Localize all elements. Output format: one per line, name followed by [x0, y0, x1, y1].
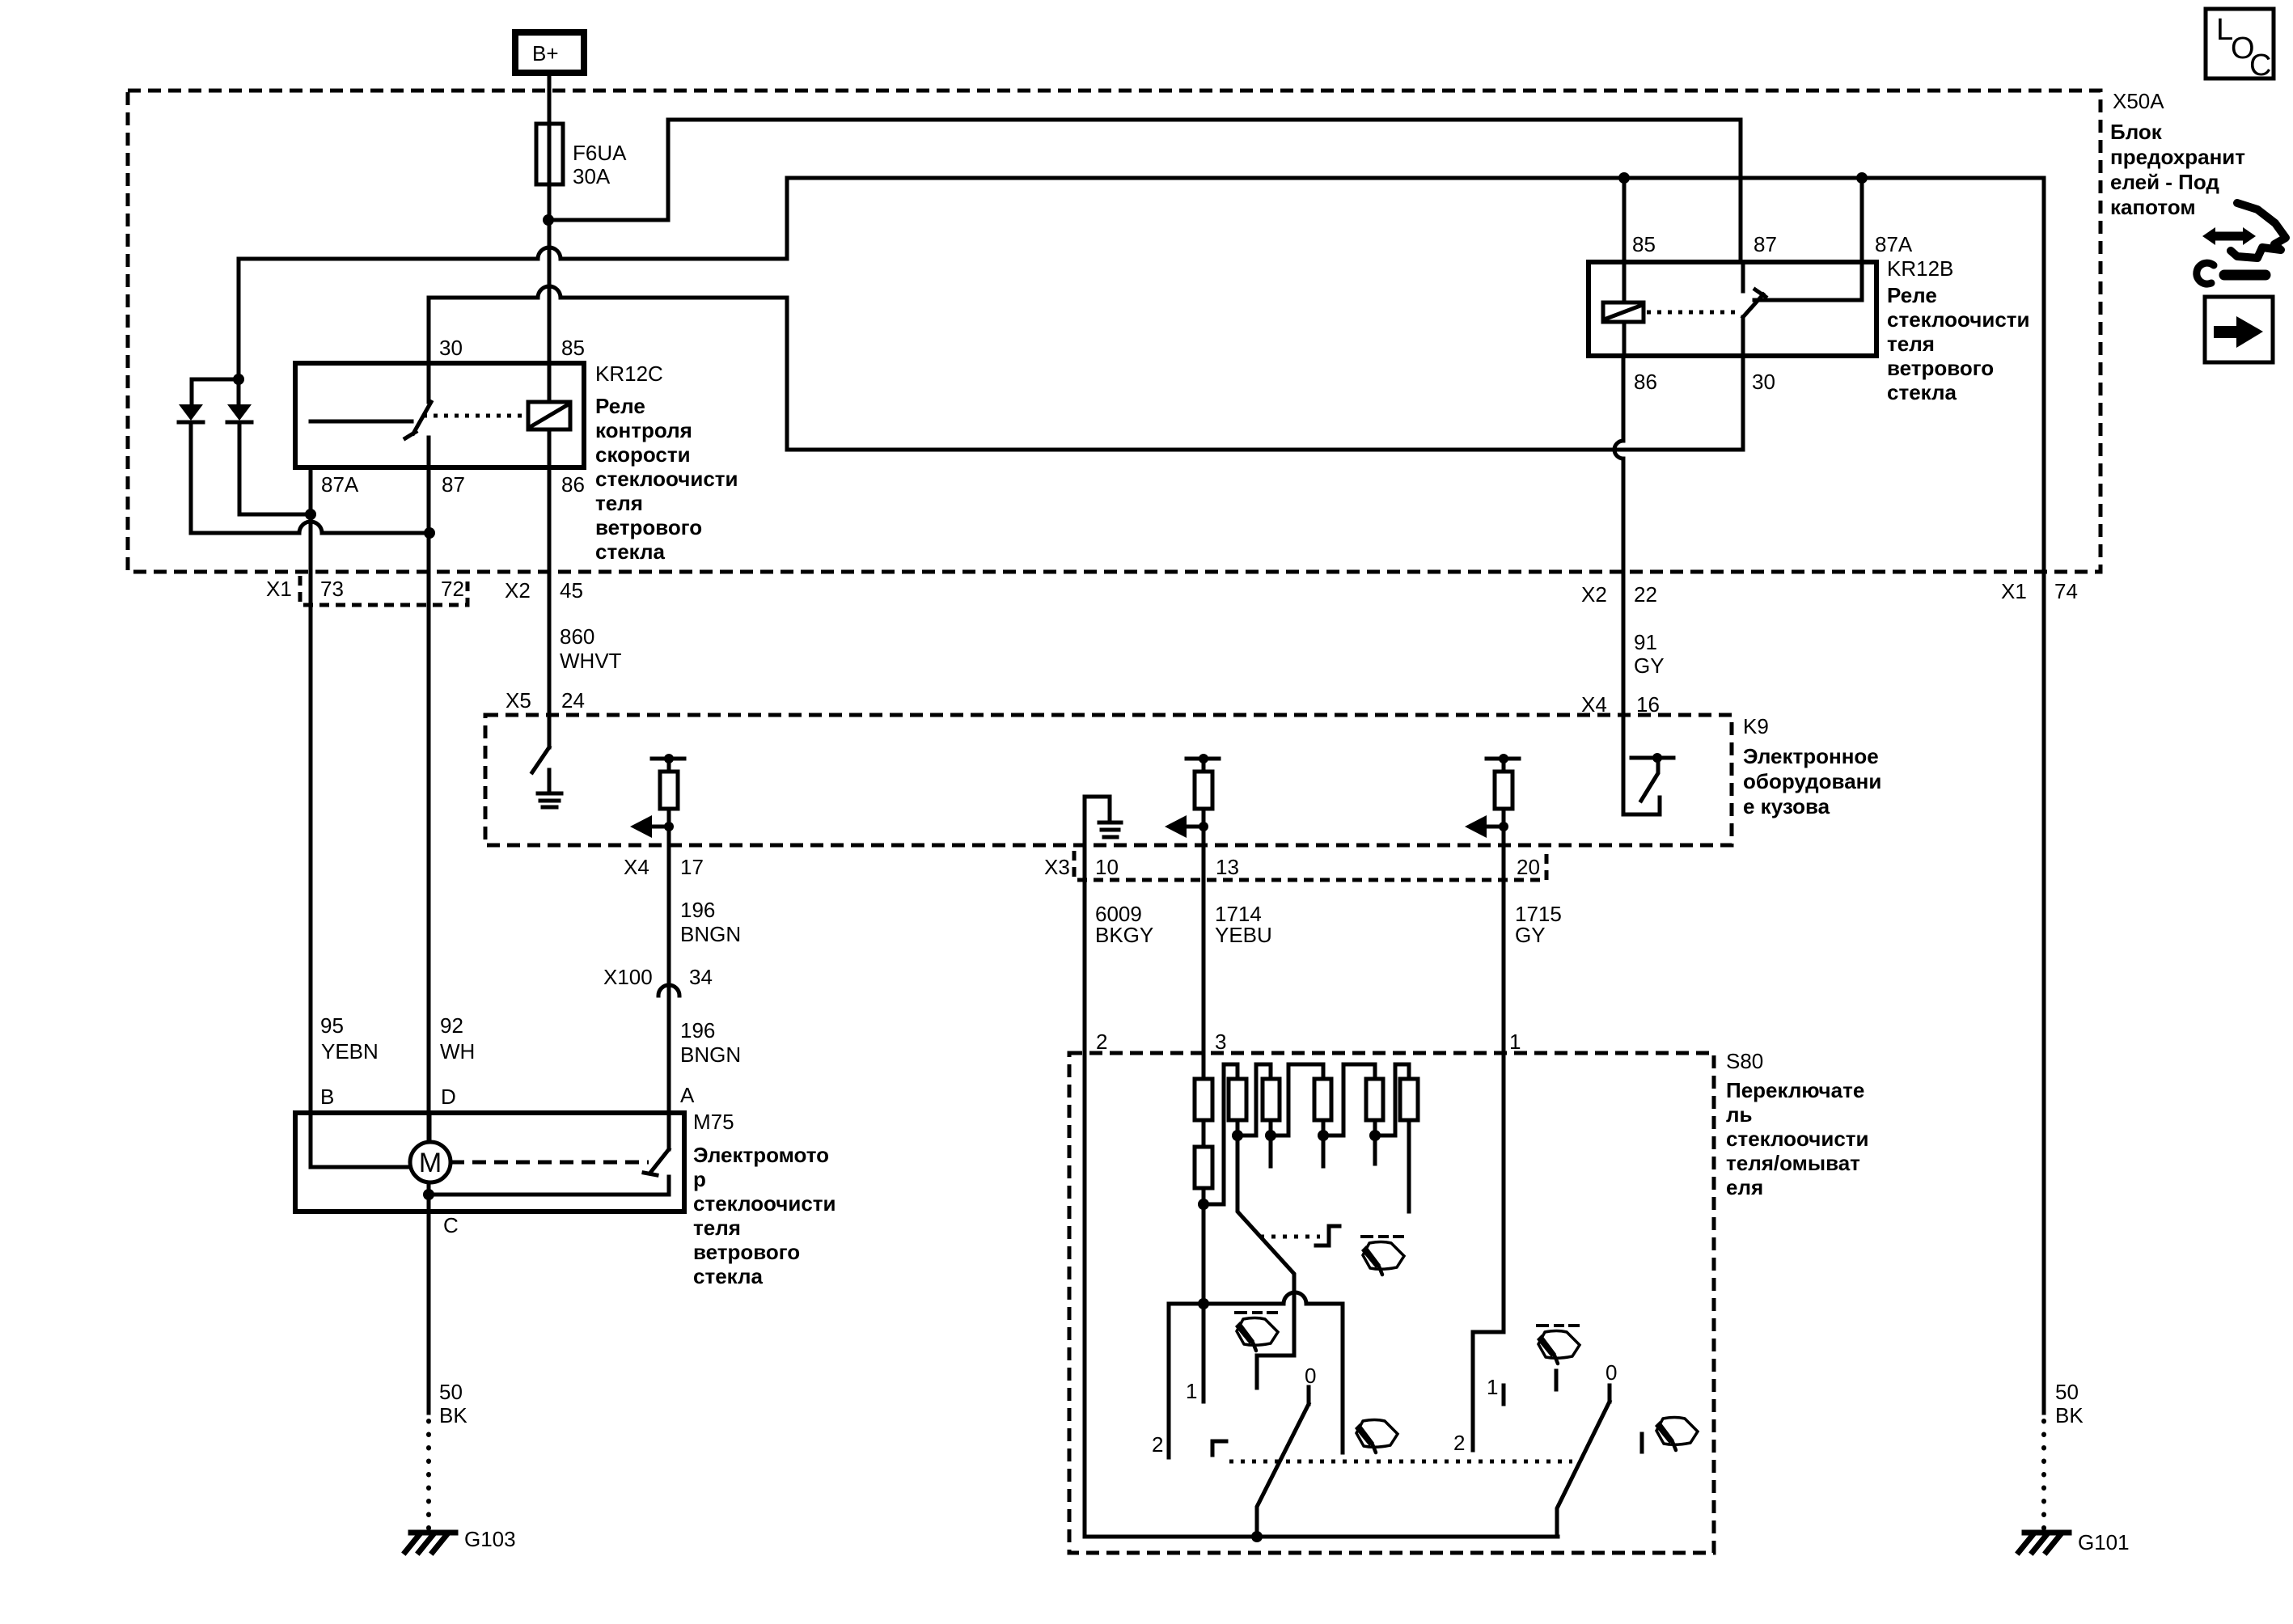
- svg-text:BNGN: BNGN: [680, 922, 741, 946]
- svg-text:X4: X4: [624, 855, 649, 879]
- svg-text:X2: X2: [505, 578, 531, 603]
- svg-text:30: 30: [439, 336, 463, 360]
- svg-text:стеклоочисти: стеклоочисти: [1887, 307, 2030, 332]
- svg-text:196: 196: [680, 1018, 715, 1042]
- svg-text:C: C: [443, 1213, 459, 1237]
- svg-text:оборудовани: оборудовани: [1743, 769, 1881, 793]
- svg-text:контроля: контроля: [595, 418, 692, 442]
- svg-text:стеклоочисти: стеклоочисти: [1726, 1127, 1869, 1151]
- svg-text:196: 196: [680, 898, 715, 922]
- svg-text:87A: 87A: [321, 472, 359, 497]
- svg-text:скорости: скорости: [595, 442, 691, 467]
- svg-text:0: 0: [1305, 1364, 1316, 1388]
- svg-text:F6UA: F6UA: [573, 141, 627, 165]
- svg-text:ль: ль: [1726, 1102, 1753, 1127]
- svg-text:86: 86: [1634, 370, 1657, 394]
- svg-text:M: M: [419, 1148, 442, 1178]
- svg-text:B+: B+: [532, 41, 559, 66]
- svg-text:91: 91: [1634, 630, 1657, 654]
- svg-text:2: 2: [1096, 1030, 1107, 1054]
- svg-text:X3: X3: [1044, 855, 1070, 879]
- svg-text:Реле: Реле: [595, 394, 645, 418]
- svg-text:Электромото: Электромото: [693, 1143, 829, 1167]
- svg-text:50: 50: [2055, 1380, 2079, 1404]
- svg-text:X2: X2: [1581, 582, 1607, 607]
- svg-text:предохранит: предохранит: [2110, 145, 2245, 169]
- svg-text:17: 17: [680, 855, 704, 879]
- svg-text:C: C: [2249, 49, 2271, 82]
- svg-text:50: 50: [439, 1380, 463, 1404]
- svg-text:X1: X1: [266, 577, 292, 601]
- svg-text:еля: еля: [1726, 1175, 1763, 1199]
- svg-text:30: 30: [1752, 370, 1775, 394]
- svg-text:теля/омыват: теля/омыват: [1726, 1151, 1860, 1175]
- svg-text:стекла: стекла: [693, 1264, 764, 1288]
- svg-text:1: 1: [1509, 1030, 1521, 1054]
- svg-text:стеклоочисти: стеклоочисти: [595, 467, 738, 491]
- svg-text:WHVT: WHVT: [560, 649, 622, 673]
- svg-text:BK: BK: [439, 1403, 467, 1427]
- svg-text:85: 85: [561, 336, 585, 360]
- svg-text:стекла: стекла: [1887, 380, 1957, 404]
- svg-text:GY: GY: [1515, 923, 1546, 947]
- svg-text:X4: X4: [1581, 692, 1607, 717]
- svg-text:2: 2: [1453, 1431, 1465, 1455]
- svg-text:A: A: [680, 1083, 695, 1107]
- svg-text:капотом: капотом: [2110, 195, 2196, 219]
- svg-text:30A: 30A: [573, 164, 611, 188]
- svg-text:X1: X1: [2001, 579, 2027, 603]
- svg-text:3: 3: [1215, 1030, 1226, 1054]
- svg-text:BNGN: BNGN: [680, 1042, 741, 1067]
- svg-text:стеклоочисти: стеклоочисти: [693, 1191, 836, 1216]
- svg-text:20: 20: [1517, 855, 1540, 879]
- svg-text:B: B: [320, 1085, 334, 1109]
- svg-text:45: 45: [560, 578, 583, 603]
- svg-text:34: 34: [689, 965, 713, 989]
- svg-text:теля: теля: [595, 491, 643, 515]
- svg-text:87: 87: [1754, 232, 1777, 256]
- svg-text:22: 22: [1634, 582, 1657, 607]
- svg-text:X100: X100: [603, 965, 653, 989]
- svg-text:85: 85: [1632, 232, 1656, 256]
- svg-text:K9: K9: [1743, 714, 1769, 738]
- svg-text:G101: G101: [2078, 1530, 2130, 1554]
- svg-text:92: 92: [440, 1013, 463, 1038]
- svg-text:KR12C: KR12C: [595, 362, 663, 386]
- svg-text:YEBU: YEBU: [1215, 923, 1272, 947]
- svg-text:1: 1: [1487, 1375, 1498, 1399]
- svg-text:р: р: [693, 1167, 706, 1191]
- svg-text:S80: S80: [1726, 1049, 1763, 1073]
- svg-text:1: 1: [1186, 1379, 1197, 1403]
- svg-text:X50A: X50A: [2113, 89, 2164, 113]
- svg-text:елей - Под: елей - Под: [2110, 170, 2219, 194]
- svg-text:ветрового: ветрового: [693, 1240, 800, 1264]
- svg-text:860: 860: [560, 624, 594, 649]
- svg-text:95: 95: [320, 1013, 344, 1038]
- svg-text:72: 72: [441, 577, 464, 601]
- svg-text:Реле: Реле: [1887, 283, 1937, 307]
- svg-text:стекла: стекла: [595, 539, 666, 564]
- svg-text:Блок: Блок: [2110, 120, 2163, 144]
- svg-text:X5: X5: [506, 688, 531, 713]
- svg-text:теля: теля: [693, 1216, 741, 1240]
- svg-text:16: 16: [1636, 692, 1660, 717]
- svg-text:KR12B: KR12B: [1887, 256, 1953, 281]
- svg-text:73: 73: [320, 577, 344, 601]
- svg-text:D: D: [441, 1085, 456, 1109]
- svg-text:10: 10: [1095, 855, 1119, 879]
- svg-text:теля: теля: [1887, 332, 1935, 356]
- svg-text:BKGY: BKGY: [1095, 923, 1153, 947]
- svg-text:87: 87: [442, 472, 465, 497]
- svg-text:BK: BK: [2055, 1403, 2084, 1427]
- svg-text:Переключате: Переключате: [1726, 1078, 1864, 1102]
- svg-text:87A: 87A: [1875, 232, 1913, 256]
- svg-text:е кузова: е кузова: [1743, 794, 1830, 818]
- svg-text:ветрового: ветрового: [595, 515, 702, 539]
- svg-text:ветрового: ветрового: [1887, 356, 1994, 380]
- svg-text:G103: G103: [464, 1527, 516, 1551]
- svg-text:YEBN: YEBN: [321, 1039, 379, 1064]
- svg-text:13: 13: [1216, 855, 1239, 879]
- svg-text:GY: GY: [1634, 653, 1665, 678]
- svg-text:24: 24: [561, 688, 585, 713]
- svg-text:74: 74: [2054, 579, 2078, 603]
- svg-text:0: 0: [1606, 1360, 1617, 1385]
- svg-text:Электронное: Электронное: [1743, 744, 1879, 768]
- svg-text:2: 2: [1152, 1432, 1163, 1457]
- svg-text:M75: M75: [693, 1110, 734, 1134]
- svg-text:WH: WH: [440, 1039, 475, 1064]
- svg-text:86: 86: [561, 472, 585, 497]
